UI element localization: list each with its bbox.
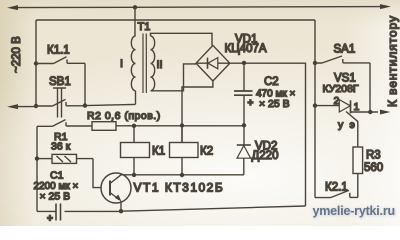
wire: timing node vertical [36, 126, 38, 211]
node: C2 top junction [242, 61, 246, 65]
wire: K1.1 right terminal down [84, 63, 86, 105]
switch K2.1 [315, 190, 358, 197]
svg-text:Д220: Д220 [252, 150, 279, 162]
resistor R2 [92, 122, 116, 131]
svg-text:560: 560 [364, 162, 383, 174]
node: R1 left junction [35, 156, 39, 160]
diode VD2 [237, 125, 251, 175]
switch SA1 [315, 56, 370, 63]
svg-text:SВ1: SВ1 [49, 76, 71, 88]
transformer T1 secondary winding II [151, 36, 155, 91]
wire: cathode arrow to fan [380, 110, 391, 115]
transformer T1 primary winding I [131, 36, 135, 91]
wire: right trunk down to K2.1 [314, 20, 316, 198]
wire: switched live bus y=20 [36, 19, 315, 21]
transformer T1 core [143, 34, 146, 94]
switch SB1 contact 2 [37, 120, 92, 127]
wire: top rail right arrow (to fan) [380, 4, 391, 9]
thyristor VS1 [315, 100, 378, 147]
transformer T1 primary bottom lead [135, 91, 137, 105]
wire: R3 to K2.1 [357, 174, 359, 198]
svg-text:R2 0,6 (пров.): R2 0,6 (пров.) [87, 110, 161, 122]
svg-text:× 25 В: × 25 В [40, 191, 71, 203]
svg-text:+: + [248, 98, 254, 109]
wire: to T1 primary bottom [85, 104, 136, 105]
svg-text:К вентилятору: К вентилятору [386, 15, 400, 107]
node: top rail / T1 primary junction [133, 5, 137, 9]
transformer T1 primary lead [134, 7, 136, 36]
svg-text:SА1: SА1 [334, 44, 356, 56]
svg-text:36 к: 36 к [51, 141, 71, 153]
svg-text:К2.1: К2.1 [325, 182, 348, 194]
wire: R1 to VT1 base [93, 159, 102, 188]
svg-text:× 25 В: × 25 В [259, 98, 290, 110]
wire: K1 coil leads [133, 126, 135, 175]
capacitor C1 [37, 204, 121, 221]
button SB1 actuator [53, 88, 66, 118]
svg-text:КЦ407А: КЦ407А [225, 43, 267, 55]
bridge rectifier VD1 [196, 45, 230, 81]
svg-text:К1: К1 [152, 146, 165, 158]
svg-text:С2: С2 [264, 76, 279, 88]
capacitor C2 [234, 63, 253, 125]
wire: secondary bottom to bridge left corner [151, 64, 197, 91]
node: K2 coil top / bridge plus [180, 123, 184, 127]
wire: SA1 right terminal down [369, 63, 371, 112]
svg-text:VТ1 КТ3102Б: VТ1 КТ3102Б [134, 181, 225, 195]
node: cathode / SA1 junction [368, 110, 372, 114]
node: K1.1 left junction [34, 61, 38, 65]
svg-text:С1: С1 [50, 170, 64, 182]
switch K1.1 [36, 57, 85, 64]
svg-text:~220 В: ~220 В [11, 36, 23, 73]
relay coil K2 [170, 143, 199, 158]
node: SB1 right junction [83, 103, 87, 107]
svg-text:КУ208Г: КУ208Г [323, 83, 359, 95]
wire: bridge minus to ground [230, 63, 306, 206]
ground rail [121, 206, 306, 211]
svg-text:+: + [47, 214, 53, 225]
resistor R3 [353, 147, 363, 174]
wire: left vertical (K1.1/SB1 branch) [35, 20, 37, 106]
node: K2 coil bottom [180, 173, 184, 177]
node: VS1 anode junction [313, 103, 317, 107]
node: C2 plus / VD2 cathode [242, 123, 246, 127]
svg-text:у: у [338, 119, 344, 131]
resistor R1 [37, 154, 93, 163]
node: SB1 left junction [34, 104, 38, 108]
svg-text:1: 1 [354, 101, 360, 113]
node: K1 coil top [132, 124, 136, 128]
wire: secondary top to bridge [151, 33, 213, 45]
svg-text:2: 2 [334, 95, 340, 107]
svg-text:К2: К2 [200, 146, 213, 158]
node: VT1 emitter junction [119, 209, 123, 213]
wire: 220V bottom lead left arrow [7, 104, 18, 109]
node: K1 coil bottom [132, 173, 136, 177]
wire: +rail from R2 to C2 [116, 125, 244, 127]
relay coil K1 [121, 143, 150, 158]
switch SB1 contact 1 [36, 99, 85, 106]
wire: 220V bottom lead [13, 106, 36, 108]
wire: 220V top rail [13, 7, 385, 8]
wire: K2 coil leads [181, 126, 183, 176]
svg-text:II: II [157, 59, 163, 71]
wire: collector rail [121, 174, 244, 176]
svg-text:э: э [350, 119, 355, 131]
node: SA1 left junction [313, 61, 317, 65]
transistor VT1 [101, 173, 131, 211]
svg-text:R3: R3 [366, 150, 381, 162]
svg-text:Т1: Т1 [138, 21, 151, 33]
wire: bridge plus to rail [182, 81, 213, 143]
watermark [313, 204, 395, 218]
svg-text:К1.1: К1.1 [47, 45, 70, 57]
wire: top rail left arrow [7, 5, 18, 10]
svg-text:I: I [120, 58, 123, 70]
